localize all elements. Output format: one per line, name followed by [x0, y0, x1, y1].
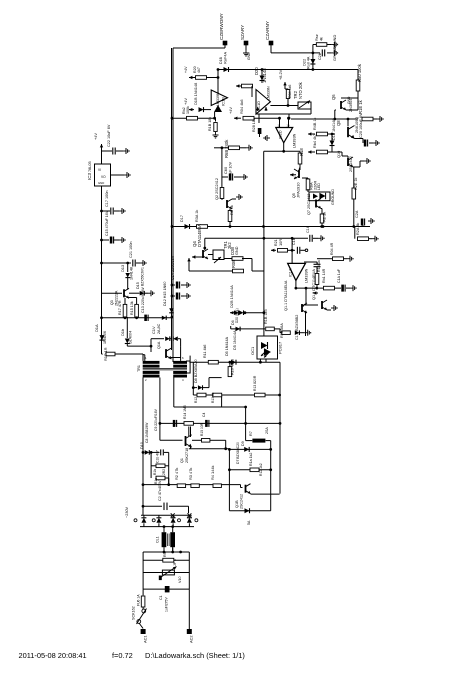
svg-text:R15 13k: R15 13k: [130, 301, 134, 315]
svg-text:C15 470uF 16V: C15 470uF 16V: [105, 210, 109, 236]
svg-text:LM339N: LM339N: [216, 92, 220, 106]
svg-text:R6B 240k: R6B 240k: [224, 139, 229, 158]
svg-text:PC817: PC817: [278, 341, 283, 354]
svg-text:4k: 4k: [320, 37, 324, 41]
svg-text:1uF/275V: 1uF/275V: [165, 597, 169, 612]
svg-text:R2A 3k: R2A 3k: [356, 223, 360, 235]
svg-text:NTO 20k: NTO 20k: [298, 81, 303, 99]
svg-text:GND: GND: [98, 181, 104, 185]
svg-text:R12: R12: [194, 397, 198, 403]
svg-text:CZERWONY: CZERWONY: [219, 13, 224, 40]
svg-text:SZARY: SZARY: [240, 25, 245, 40]
svg-text:C1.6 BZX56B2: C1.6 BZX56B2: [295, 315, 299, 340]
svg-text:FU6 1A: FU6 1A: [137, 594, 141, 606]
svg-text:C2A: C2A: [355, 210, 359, 218]
svg-text:Q2 2SC2412: Q2 2SC2412: [215, 178, 219, 200]
svg-text:D8 BZX85A20: D8 BZX85A20: [194, 359, 198, 383]
svg-text:C8 1N5819W: C8 1N5819W: [145, 422, 149, 443]
svg-text:D20: D20: [254, 67, 259, 75]
svg-text:C1V: C1V: [151, 326, 156, 334]
svg-text:10R: 10R: [278, 239, 283, 246]
svg-text:R17 47R: R17 47R: [118, 300, 122, 315]
svg-text:+4V: +4V: [183, 98, 188, 105]
svg-text:D:\Ladowarka.sch (Sheet: 1/1): D:\Ladowarka.sch (Sheet: 1/1): [145, 651, 245, 660]
svg-text:Q1.2 DTC114EUA: Q1.2 DTC114EUA: [312, 269, 316, 300]
svg-text:D17: D17: [180, 215, 184, 222]
svg-text:+8.2V: +8.2V: [278, 69, 283, 80]
svg-text:R14 1M5: R14 1M5: [183, 405, 187, 419]
svg-text:C1b: C1b: [292, 238, 296, 245]
svg-text:~230V: ~230V: [125, 506, 129, 518]
svg-text:D15: D15: [136, 282, 140, 289]
svg-text:D2B 1N414A: D2B 1N414A: [229, 285, 234, 308]
svg-text:VI: VI: [98, 168, 101, 172]
svg-text:R2E 1k: R2E 1k: [354, 177, 358, 190]
svg-text:D5 1N414A: D5 1N414A: [225, 336, 229, 356]
svg-text:1N4148: 1N4148: [130, 267, 134, 280]
svg-text:100k: 100k: [186, 106, 190, 114]
svg-text:1N4006: 1N4006: [103, 331, 107, 344]
svg-text:D12 H15 1N60: D12 H15 1N60: [163, 282, 167, 306]
svg-text:IC1B: IC1B: [221, 97, 226, 106]
svg-text:GND: GND: [247, 52, 251, 60]
svg-text:2SK2718: 2SK2718: [185, 448, 189, 463]
svg-text:JP 4: JP 4: [173, 559, 177, 566]
svg-text:D20 (Rx1): D20 (Rx1): [235, 308, 239, 323]
svg-text:C1b 4n7: C1b 4n7: [156, 450, 160, 463]
svg-text:R34 4k6: R34 4k6: [288, 85, 292, 98]
svg-text:R04 4k6: R04 4k6: [239, 100, 244, 115]
svg-text:100uF 10V: 100uF 10V: [229, 161, 233, 180]
svg-text:Q7 2SC2412: Q7 2SC2412: [307, 194, 311, 215]
svg-text:Q1B: Q1B: [235, 500, 239, 508]
svg-text:AC1: AC1: [143, 635, 148, 643]
svg-text:C2b: C2b: [318, 53, 322, 60]
svg-text:+4V: +4V: [93, 133, 98, 140]
svg-text:R1B 1k: R1B 1k: [317, 260, 321, 272]
svg-text:R50 100k: R50 100k: [357, 63, 362, 82]
svg-text:R13 56A: R13 56A: [280, 323, 284, 338]
svg-text:R04 4R: R04 4R: [330, 242, 334, 255]
svg-text:D1A: D1A: [94, 324, 99, 332]
svg-text:LM339N: LM339N: [267, 86, 271, 100]
svg-text:D5 1N414A: D5 1N414A: [233, 330, 237, 350]
svg-text:Q3: Q3: [110, 300, 114, 305]
svg-text:RuF4A: RuF4A: [223, 51, 228, 64]
svg-text:f=0.72: f=0.72: [112, 651, 133, 660]
svg-text:D6: D6: [231, 320, 235, 325]
svg-text:C22 10uF 6V: C22 10uF 6V: [107, 124, 111, 147]
svg-text:GND: GND: [235, 246, 239, 255]
svg-text:R5: R5: [163, 552, 167, 557]
svg-text:C21 100n: C21 100n: [129, 242, 133, 258]
svg-text:CZARNY: CZARNY: [265, 21, 270, 40]
svg-text:IC2D: IC2D: [279, 130, 283, 139]
svg-text:BZX55C6V1: BZX55C6V1: [141, 267, 145, 286]
svg-text:2011-05-08 20:08:41: 2011-05-08 20:08:41: [19, 651, 87, 660]
svg-text:C4: C4: [202, 413, 206, 417]
svg-text:D7 BZX84C20: D7 BZX84C20: [236, 442, 240, 464]
svg-text:4k7: 4k7: [197, 67, 201, 73]
svg-text:R1B 18k: R1B 18k: [208, 117, 212, 131]
svg-text:2SA: 2SA: [265, 427, 269, 434]
svg-text:CL1: CL1: [156, 536, 160, 543]
svg-text:TR1: TR1: [137, 365, 141, 372]
svg-text:Rurl 4A: Rurl 4A: [307, 56, 311, 69]
svg-text:SCK162: SCK162: [132, 606, 136, 620]
svg-text:R12 1k2: R12 1k2: [259, 463, 263, 476]
svg-text:2SC2412: 2SC2412: [240, 494, 244, 509]
svg-text:2A,8C: 2A,8C: [157, 323, 161, 334]
svg-text:Q1: Q1: [180, 458, 184, 463]
svg-text:R1B 1k5: R1B 1k5: [264, 309, 268, 324]
svg-text:C17 100n: C17 100n: [105, 191, 109, 207]
svg-text:Q8: Q8: [336, 120, 341, 126]
svg-text:R1b: R1b: [153, 469, 157, 475]
svg-text:AC2: AC2: [189, 635, 194, 643]
svg-text:R2 47k: R2 47k: [174, 468, 179, 480]
svg-text:2SC2412: 2SC2412: [349, 156, 353, 172]
svg-text:R7: R7: [249, 431, 253, 436]
svg-text:Q6: Q6: [331, 94, 336, 100]
svg-text:78L05: 78L05: [88, 161, 92, 172]
svg-text:IC3: IC3: [87, 173, 92, 181]
svg-text:LM393N: LM393N: [293, 133, 297, 148]
svg-text:+4V: +4V: [184, 66, 188, 73]
svg-text:C9 220uF/16V: C9 220uF/16V: [154, 408, 158, 431]
svg-text:GL4004: GL4004: [129, 331, 133, 344]
svg-text:R16 4k6S: R16 4k6S: [231, 358, 235, 375]
svg-text:R13 820R: R13 820R: [253, 375, 257, 391]
svg-text:2R2: 2R2: [162, 469, 166, 475]
svg-text:C1A 1uF: C1A 1uF: [337, 268, 341, 283]
svg-text:R0B: R0B: [231, 260, 236, 268]
svg-text:LM339N: LM339N: [305, 268, 309, 283]
svg-text:R2 1k: R2 1k: [322, 212, 327, 222]
svg-text:R4 144k: R4 144k: [210, 465, 215, 480]
svg-text:Q1A: Q1A: [157, 341, 161, 349]
svg-text:R1a 1k2: R1a 1k2: [249, 453, 253, 466]
svg-text:R3 47k: R3 47k: [188, 468, 193, 480]
svg-text:R15 10R: R15 10R: [200, 422, 204, 436]
svg-text:C1: C1: [159, 595, 163, 600]
svg-text:2N3904: 2N3904: [349, 99, 353, 112]
svg-text:R4B 1k: R4B 1k: [313, 117, 317, 130]
svg-text:D1B 1N4148: D1B 1N4148: [193, 83, 198, 105]
svg-text:R11 4k6: R11 4k6: [203, 345, 207, 358]
svg-text:1N4148: 1N4148: [262, 68, 267, 83]
svg-text:R1E 1k: R1E 1k: [358, 99, 363, 114]
svg-text:OC1: OC1: [250, 346, 255, 355]
svg-text:C13 220u/6.3W: C13 220u/6.3W: [141, 287, 145, 313]
svg-text:DTA114EUA: DTA114EUA: [197, 224, 202, 247]
svg-text:D13: D13: [120, 265, 125, 272]
svg-text:5A: 5A: [247, 520, 251, 525]
svg-text:Rb1 14R: Rb1 14R: [322, 268, 326, 283]
svg-text:D19 1N4148: D19 1N4148: [332, 119, 336, 140]
svg-text:C20 100uF 6V: C20 100uF 6V: [359, 113, 363, 138]
svg-text:R13 1k: R13 1k: [211, 392, 215, 403]
svg-text:LED: LED: [317, 183, 321, 190]
svg-text:R18: R18: [299, 148, 304, 156]
svg-text:C2 47n400V: C2 47n400V: [158, 480, 162, 501]
svg-text:Q10: Q10: [337, 151, 341, 158]
svg-text:IC1A: IC1A: [289, 268, 293, 277]
svg-text:GROUND: GROUND: [331, 189, 335, 205]
svg-text:VO: VO: [101, 175, 106, 179]
svg-text:D1b: D1b: [120, 329, 125, 336]
svg-text:GROUND: GROUND: [332, 44, 337, 61]
svg-text:R1P 1R: R1P 1R: [103, 347, 108, 361]
svg-text:Rb4 4k7: Rb4 4k7: [313, 134, 317, 148]
svg-text:D10: D10: [140, 442, 144, 449]
svg-text:Rsz: Rsz: [314, 34, 319, 41]
svg-text:D9: D9: [241, 441, 245, 446]
svg-text:R5 1k: R5 1k: [230, 205, 234, 215]
svg-text:C60: C60: [223, 166, 228, 174]
svg-text:JPA1910: JPA1910: [296, 182, 301, 198]
svg-text:V10: V10: [178, 576, 182, 583]
svg-text:C16: C16: [306, 226, 310, 233]
svg-text:R3A 1k: R3A 1k: [195, 210, 199, 222]
svg-text:Q1.1 DTA114EUA: Q1.1 DTA114EUA: [284, 280, 288, 311]
svg-text:+4V: +4V: [228, 107, 233, 114]
